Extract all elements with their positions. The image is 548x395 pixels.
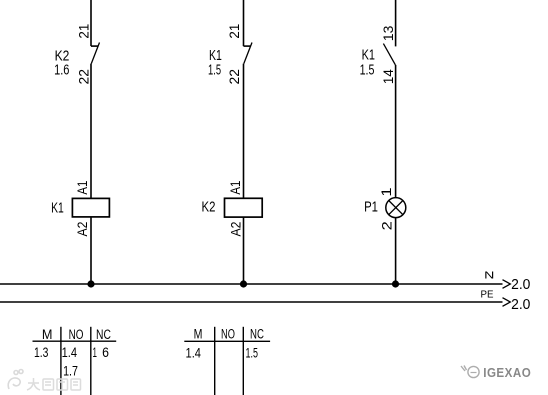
contact K1 NO (1.5) blade (383, 44, 395, 65)
svg-text:1: 1 (378, 187, 394, 196)
svg-text:K1: K1 (209, 48, 222, 64)
svg-text:M: M (194, 326, 203, 341)
svg-text:A2: A2 (74, 221, 90, 236)
lamp P1 circle (386, 198, 406, 218)
wire W1 middle segment (90, 64, 92, 199)
table 2 header underline (184, 340, 270, 342)
svg-text:1.5: 1.5 (360, 63, 375, 79)
wire W3 middle segment (395, 65, 397, 198)
bus N arrow (503, 280, 511, 289)
svg-text:K2: K2 (202, 200, 216, 216)
svg-text:NC: NC (96, 327, 111, 342)
svg-text:21: 21 (76, 24, 92, 39)
svg-text:21: 21 (226, 24, 242, 39)
svg-text:A2: A2 (227, 221, 243, 236)
wire W1 top segment (90, 0, 92, 46)
svg-text:13: 13 (380, 25, 396, 41)
svg-text:M: M (42, 327, 53, 342)
coil K1 (72, 198, 109, 217)
svg-text:2.0: 2.0 (511, 297, 530, 313)
svg-text:22: 22 (76, 69, 92, 85)
table 1 header underline (33, 340, 117, 342)
junction dot W1/N (87, 280, 94, 287)
coil K2 (225, 198, 263, 217)
bus PE arrow (503, 298, 511, 307)
svg-text:22: 22 (226, 69, 242, 85)
junction dot W2/N (240, 280, 247, 287)
svg-text:14: 14 (380, 69, 396, 84)
svg-text:NO: NO (69, 327, 84, 342)
lamp P1 cross (389, 201, 403, 215)
contact K2 NC (1.6) fixed bar (91, 45, 99, 47)
contact table 2 (184, 327, 270, 395)
bus PE (0, 301, 503, 303)
wire W2 middle segment (243, 64, 245, 199)
svg-text:1.6: 1.6 (54, 62, 69, 78)
svg-text:NO: NO (221, 326, 235, 341)
svg-text:NC: NC (250, 326, 264, 341)
svg-text:1.5: 1.5 (246, 346, 258, 361)
wire W1 bottom segment (90, 217, 92, 284)
svg-text:1.3: 1.3 (34, 345, 48, 360)
svg-text:1.5: 1.5 (208, 63, 221, 79)
table 1 divider M/NO (60, 327, 62, 395)
svg-text:A1: A1 (227, 180, 243, 194)
svg-text:1: 1 (93, 345, 97, 360)
svg-text:2: 2 (378, 221, 394, 230)
contact K1 NC (1.5) fixed bar (244, 45, 252, 47)
svg-text:K1: K1 (362, 48, 375, 64)
svg-text:1.4: 1.4 (186, 346, 202, 361)
svg-text:1.4: 1.4 (62, 345, 78, 360)
svg-text:N: N (484, 271, 494, 282)
svg-text:1.7: 1.7 (63, 364, 78, 379)
svg-text:A1: A1 (74, 180, 90, 194)
contact K2 NC blade (91, 43, 99, 64)
svg-text:K1: K1 (51, 201, 64, 217)
svg-text:PE: PE (481, 290, 494, 301)
bus N (0, 283, 503, 285)
watermark left characters (27, 378, 81, 390)
contact K1 NC blade (244, 43, 252, 64)
table 2 divider NO/NC (242, 327, 244, 395)
wire W3 top segment (395, 0, 397, 46)
contact table 1 (33, 327, 117, 395)
watermark left logo (8, 370, 23, 390)
svg-text:2.0: 2.0 (511, 277, 530, 293)
table 1 divider NO/NC (90, 327, 92, 395)
svg-text:IGEXAO: IGEXAO (483, 366, 531, 380)
svg-text:6: 6 (102, 345, 109, 360)
watermark right logo (461, 366, 479, 378)
wire W2 bottom segment (243, 217, 245, 284)
wire W3 bottom segment (395, 218, 397, 284)
junction dot W3/N (392, 280, 399, 287)
svg-text:P1: P1 (364, 200, 378, 216)
table 2 divider M/NO (214, 327, 216, 395)
wire W2 top segment (243, 0, 245, 46)
